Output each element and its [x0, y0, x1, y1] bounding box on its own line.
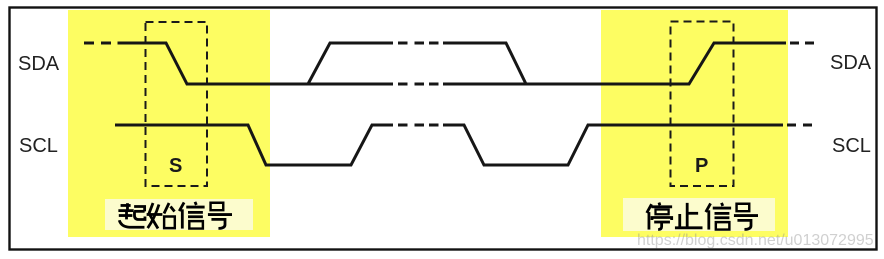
svg-text:SDA: SDA: [830, 52, 872, 74]
svg-text:P: P: [695, 155, 708, 177]
svg-text:SCL: SCL: [19, 135, 58, 157]
svg-text:SCL: SCL: [832, 135, 871, 157]
svg-text:SDA: SDA: [18, 53, 60, 75]
svg-text:S: S: [169, 155, 182, 177]
svg-text:https://blog.csdn.net/u0130729: https://blog.csdn.net/u013072995: [637, 232, 874, 249]
